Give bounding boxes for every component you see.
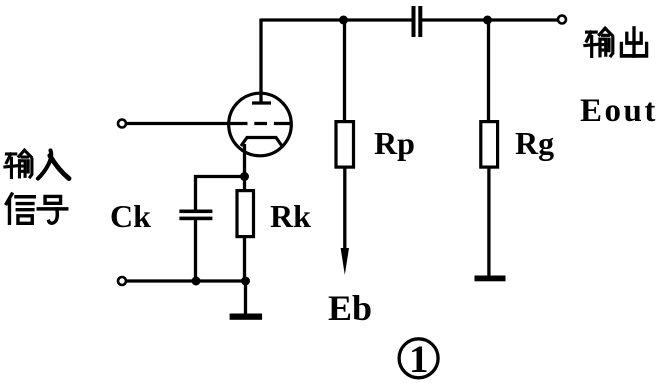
- arrow head Eb: [341, 248, 349, 275]
- node: Ck bottom junction dot: [192, 277, 201, 286]
- wire: Rg top lead: [487, 20, 490, 122]
- tube V1 cathode: [241, 138, 282, 147]
- terminal: input bottom: [118, 277, 126, 285]
- terminal: output: [558, 16, 566, 24]
- capacitor Ck bottom plate: [179, 217, 212, 221]
- label shuru (input) char shu: [5, 150, 32, 177]
- svg-text:Rg: Rg: [515, 125, 554, 161]
- node: cathode junction dot: [240, 172, 249, 181]
- wire: Ck bottom lead: [194, 220, 197, 281]
- wire: cathode junction to Ck branch: [196, 177, 245, 212]
- node: plate junction dot: [339, 16, 348, 25]
- terminal: input top: [118, 120, 126, 128]
- tube V1 envelope: [229, 93, 292, 156]
- wire: Rg bottom lead: [487, 167, 490, 276]
- wire: top rail plate to coupling cap: [261, 18, 412, 21]
- wire: bottom rail: [126, 279, 246, 282]
- node: Rk bottom junction dot: [241, 277, 250, 286]
- label shuchu (output) char shu: [585, 28, 613, 56]
- wire: Rk top lead: [243, 177, 246, 192]
- resistor Rg: [481, 122, 498, 168]
- wire: plate lead: [259, 19, 262, 104]
- label shuru (input) char ru: [38, 150, 69, 178]
- svg-text:Ck: Ck: [110, 198, 151, 234]
- resistor Rk: [237, 191, 254, 237]
- label shuchu (output) char chu: [621, 28, 646, 56]
- wire: Rp bottom lead to Eb arrow: [343, 167, 346, 252]
- wire: ground stem (cathode): [244, 281, 247, 314]
- svg-text:Rp: Rp: [374, 125, 415, 161]
- label xinhao (signal) char xin: [6, 194, 34, 223]
- ground (cathode): [230, 314, 263, 320]
- tube V1 grid dashes: [227, 122, 291, 125]
- capacitor Ck top plate: [179, 210, 212, 214]
- capacitor C (coupling) left plate: [412, 6, 416, 37]
- capacitor C (coupling) right plate: [418, 6, 422, 37]
- wire: coupling cap to output terminal: [421, 18, 560, 21]
- node: output junction dot: [483, 16, 492, 25]
- label xinhao (signal) char hao: [38, 196, 67, 223]
- figure number circle 1: [399, 339, 438, 378]
- svg-text:Rk: Rk: [270, 198, 311, 234]
- ground (Rg): [475, 276, 506, 282]
- tube V1 plate bar: [252, 101, 271, 104]
- wire: Rk bottom lead: [243, 237, 246, 281]
- svg-text:Eb: Eb: [328, 288, 372, 328]
- svg-text:Eout: Eout: [580, 93, 658, 129]
- wire: cathode lead: [243, 144, 246, 177]
- wire: Rp top lead: [343, 20, 346, 122]
- wire: input to grid: [126, 122, 228, 125]
- svg-text:1: 1: [409, 338, 429, 381]
- resistor Rp: [336, 122, 354, 168]
